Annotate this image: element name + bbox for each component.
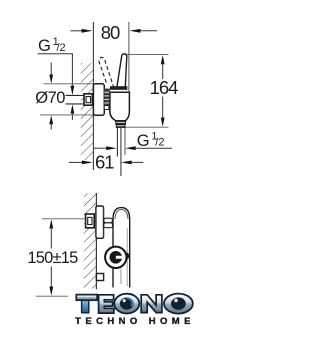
dimension 150+-15 line and arrows	[49, 219, 53, 295]
dimension 164 extension lines	[127, 54, 169, 56]
dimension 80 left arrow	[71, 29, 93, 33]
solid lever	[117, 54, 127, 89]
svg-text:164: 164	[150, 77, 179, 98]
mixer body	[110, 92, 129, 121]
dimension 164 line and arrows	[161, 55, 165, 127]
supply pipe into wall	[66, 94, 85, 96]
G 1/2 top down arrow at pipe	[71, 86, 75, 95]
connector between flange and rail	[104, 218, 113, 223]
dimension 150+-15 extension line bottom	[36, 295, 68, 297]
inner rail line	[126, 228, 128, 286]
logo TECNO	[76, 294, 193, 314]
label G 1/2 bottom	[137, 131, 165, 150]
dimension 61 arrows	[69, 161, 144, 165]
dimension O70 extension lines	[44, 83, 94, 85]
svg-text:TECHNO HOME: TECHNO HOME	[75, 316, 195, 327]
svg-text:/2: /2	[57, 42, 66, 54]
label G 1/2 top	[38, 36, 66, 55]
dimension O70 arrows	[49, 63, 53, 84]
G 1/2 top leader line	[38, 53, 73, 55]
lever base dark band	[110, 86, 127, 90]
dashed lever (alternate position)	[99, 57, 114, 87]
svg-text:G: G	[137, 132, 150, 150]
escutcheon flange upper	[93, 84, 104, 115]
lower bottom bracket	[96, 274, 103, 281]
svg-text:G: G	[38, 37, 51, 55]
lower wall hatching	[84, 194, 96, 289]
lower escutcheon flange	[96, 206, 104, 238]
glide knob	[105, 247, 126, 268]
ribbed connector nut	[104, 89, 110, 106]
wall nut upper	[84, 94, 92, 105]
upper wall hatching	[81, 63, 93, 160]
svg-text:/2: /2	[155, 137, 164, 149]
shower rail tube with dome top	[113, 208, 130, 288]
N	[141, 295, 162, 313]
outlet pipe	[116, 128, 118, 157]
svg-text:150±15: 150±15	[27, 249, 78, 267]
E	[99, 295, 114, 313]
G 1/2 bottom dimension arrows	[94, 146, 172, 150]
svg-text:Ø70: Ø70	[35, 89, 65, 107]
dimension 80 right arrow	[129, 29, 157, 33]
upper wall surface line	[92, 22, 94, 170]
lower wall nut	[86, 214, 95, 228]
outlet nut	[116, 121, 126, 124]
svg-text:80: 80	[101, 22, 120, 43]
small step under connector	[104, 106, 109, 110]
svg-text:61: 61	[95, 151, 114, 172]
T	[76, 295, 97, 301]
O ring	[164, 294, 193, 314]
lower wall surface line	[95, 193, 97, 289]
glide knob tab	[126, 253, 129, 259]
C ring	[114, 294, 139, 314]
dimension 150+-15 extension line top	[42, 218, 86, 220]
G 1/2 top up arrow under pipe	[71, 104, 75, 120]
dimension 80 extension line right	[128, 22, 130, 92]
